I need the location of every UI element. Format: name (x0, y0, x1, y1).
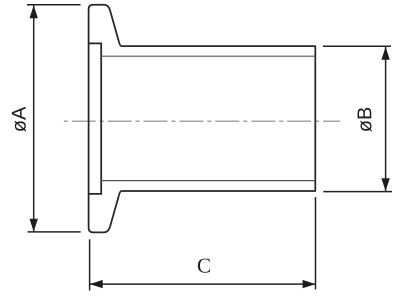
dimension øA arrow top (30, 5, 38, 18)
label øA (12, 107, 26, 132)
flange step (groove face) (89, 43, 102, 194)
dimension C extension line left (89, 239, 91, 290)
dimension C line (90, 283, 315, 285)
tube bore ID line bottom (101, 180, 315, 182)
dimension øA extension line top (27, 4, 81, 6)
tube bore ID line top (101, 55, 315, 57)
ferrule outer profile (89, 5, 316, 233)
label øB (358, 108, 372, 132)
dimension C arrow right (303, 280, 316, 288)
dimension C arrow left (90, 280, 103, 288)
dimension øB arrow bottom (381, 178, 389, 191)
dimension C extension line right (315, 197, 317, 289)
dimension øB line (385, 47, 387, 191)
centerline (dash-dot axis) (64, 120, 340, 122)
dimension øA line (33, 6, 35, 232)
dimension øA arrow bottom (30, 219, 38, 232)
label C (198, 259, 210, 273)
dimension øA extension line bottom (28, 231, 81, 233)
dimension øB extension line bottom (323, 191, 392, 193)
dimension øB extension line top (323, 45, 391, 47)
dimension øB arrow top (381, 47, 389, 60)
